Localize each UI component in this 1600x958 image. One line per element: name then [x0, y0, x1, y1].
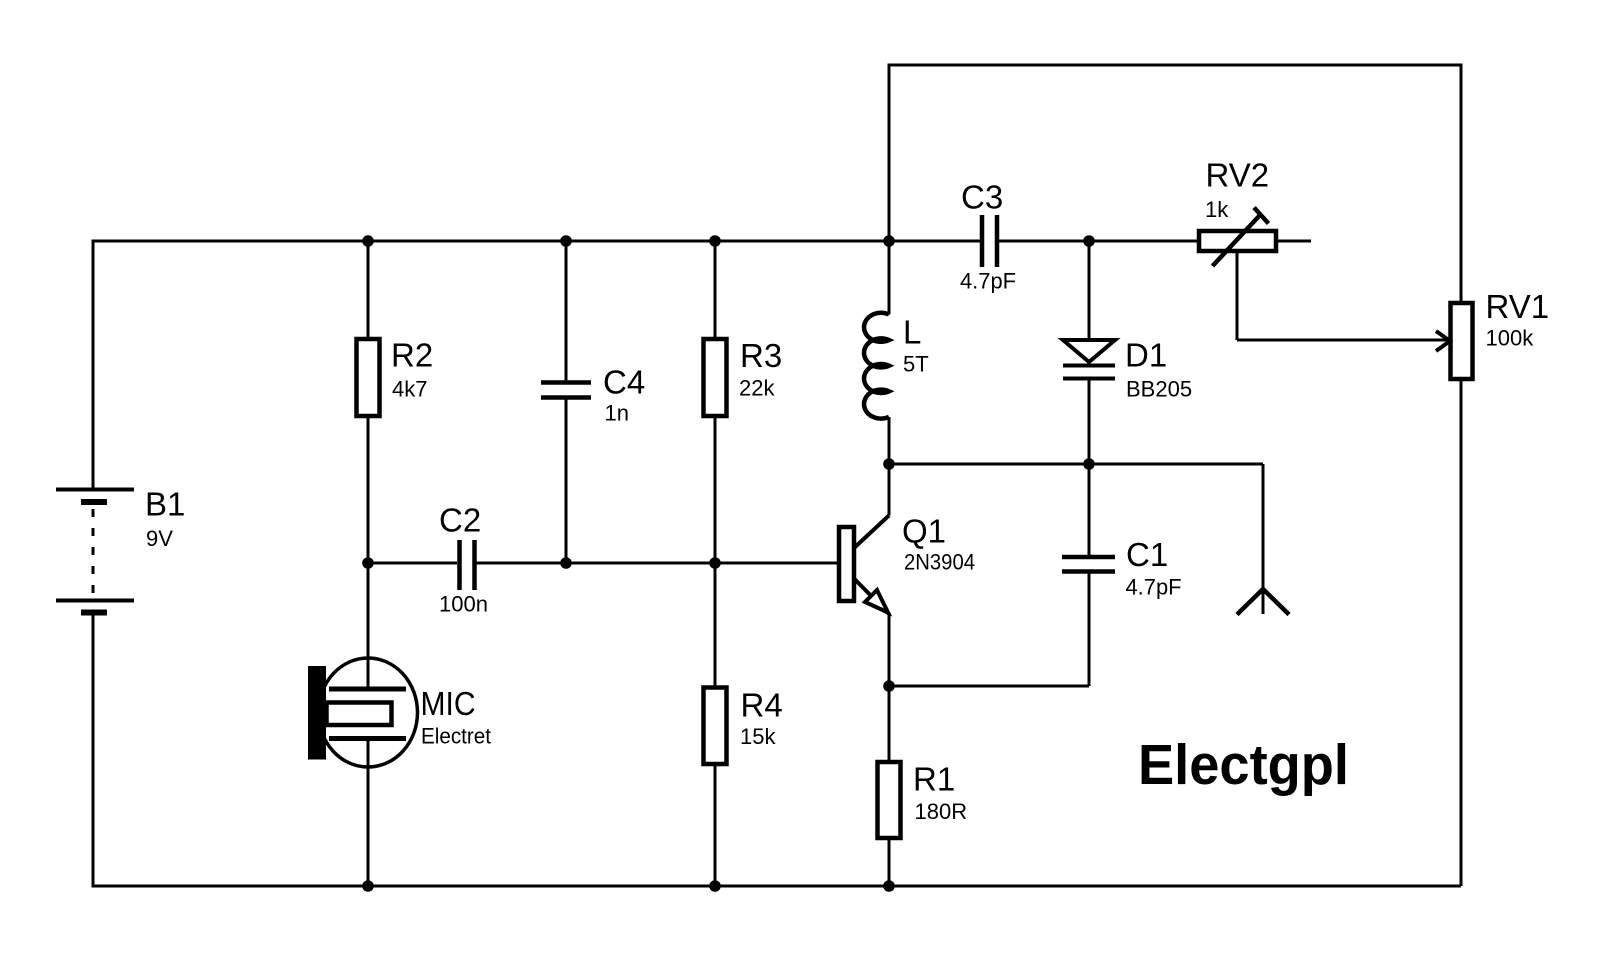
svg-text:180R: 180R — [915, 799, 968, 824]
svg-text:BB205: BB205 — [1126, 377, 1192, 402]
wire C1 to emitter node — [889, 685, 1089, 688]
svg-text:RV1: RV1 — [1486, 288, 1550, 325]
wire left rail lower — [92, 614, 95, 888]
svg-text:L: L — [903, 314, 921, 351]
wire antenna drop — [1262, 464, 1265, 614]
microphone MIC — [308, 658, 418, 767]
wire R3 branch top — [714, 241, 717, 339]
wire R3 to R4 — [714, 416, 717, 687]
capacitor C3 plates — [982, 215, 997, 267]
svg-text:R2: R2 — [391, 337, 433, 374]
trimmer RV2 arrow — [1213, 214, 1262, 266]
svg-text:4k7: 4k7 — [392, 377, 427, 402]
wire C4 to base wire — [565, 399, 568, 564]
wire node to C1 — [1088, 464, 1091, 555]
trimmer RV2 box — [1199, 231, 1276, 251]
wire top rail right segment — [1276, 240, 1311, 243]
wire R2 to mic — [367, 416, 370, 689]
capacitor C4 plates — [541, 383, 591, 398]
svg-text:Q1: Q1 — [902, 513, 946, 550]
potentiometer RV1 wiper arrow — [1436, 331, 1450, 351]
wire inner loop right vertical upper — [1460, 64, 1463, 304]
wire emitter to R1 — [888, 614, 891, 762]
potentiometer RV1 box — [1451, 303, 1473, 379]
svg-text:22k: 22k — [739, 376, 775, 401]
transistor Q1 — [839, 516, 889, 615]
wire inner loop left vertical — [888, 64, 891, 315]
svg-text:4.7pF: 4.7pF — [960, 269, 1016, 294]
wire C1 bottom — [1088, 574, 1091, 687]
svg-text:MIC: MIC — [421, 685, 476, 722]
svg-text:RV2: RV2 — [1206, 157, 1270, 194]
wire top rail mid segment — [997, 240, 1199, 243]
wire C2 to Q1 base — [476, 562, 839, 565]
svg-text:100n: 100n — [439, 592, 488, 617]
wire D1 bottom to node — [1088, 380, 1091, 464]
svg-text:C2: C2 — [439, 502, 481, 539]
wire top rail left segment — [93, 240, 982, 243]
svg-text:1k: 1k — [1205, 197, 1229, 222]
wire R2 branch top — [367, 241, 370, 339]
inductor L coil — [864, 313, 889, 419]
capacitor C1 plates — [1062, 557, 1115, 572]
wire R4 to bottom rail — [714, 764, 717, 886]
varactor diode D1 — [1063, 340, 1115, 379]
resistor R4 — [704, 688, 727, 765]
svg-text:B1: B1 — [145, 486, 185, 523]
wire C2 left — [368, 562, 457, 565]
svg-text:R4: R4 — [741, 687, 783, 724]
wire node row y464 — [889, 463, 1263, 466]
wire C4 branch top — [565, 241, 568, 382]
resistor R2 — [357, 339, 380, 416]
svg-text:5T: 5T — [903, 352, 929, 377]
svg-text:4.7pF: 4.7pF — [1126, 575, 1182, 600]
wire mic to bottom rail — [367, 739, 370, 887]
wire D1 top — [1088, 241, 1091, 338]
svg-text:C1: C1 — [1126, 536, 1168, 573]
wire RV2 wiper down — [1236, 251, 1239, 340]
resistor R1 — [878, 762, 901, 838]
svg-text:2N3904: 2N3904 — [904, 550, 975, 575]
svg-text:C4: C4 — [603, 364, 645, 401]
wire inductor bottom to collector — [888, 417, 891, 516]
svg-text:15k: 15k — [740, 724, 776, 749]
svg-text:C3: C3 — [961, 179, 1003, 216]
svg-text:9V: 9V — [146, 526, 173, 551]
svg-text:Electgpl: Electgpl — [1138, 733, 1349, 797]
svg-text:100k: 100k — [1486, 326, 1535, 351]
svg-text:R1: R1 — [913, 761, 955, 798]
wire left rail upper — [92, 240, 95, 489]
battery B1 — [56, 490, 134, 613]
antenna — [1237, 589, 1289, 615]
svg-text:Electret: Electret — [421, 724, 491, 749]
svg-text:R3: R3 — [740, 337, 782, 374]
wire R1 to bottom rail — [888, 838, 891, 886]
svg-text:1n: 1n — [605, 401, 629, 426]
wire RV2 wiper to RV1 — [1237, 339, 1449, 342]
svg-text:D1: D1 — [1125, 337, 1167, 374]
resistor R3 — [704, 339, 727, 416]
wire RV1 bottom vertical — [1460, 379, 1463, 886]
capacitor C2 plates — [460, 540, 475, 590]
wire bottom rail — [92, 885, 1462, 888]
wire inner top loop horizontal — [889, 64, 1461, 67]
